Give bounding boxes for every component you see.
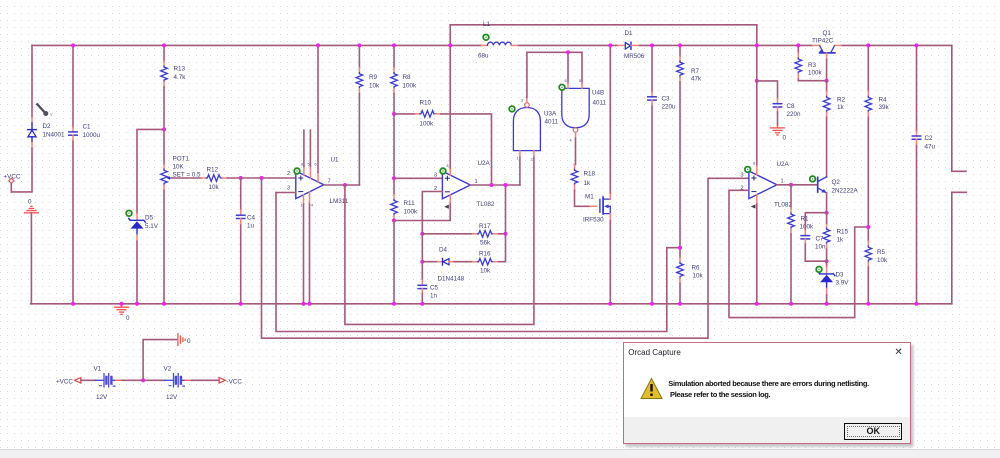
transistor Q2 2N2222A (NPN): [818, 177, 827, 193]
resistor R17: [473, 231, 499, 238]
wire: U1 output to R9 column: [324, 184, 360, 186]
junction ground rail U1 pin4: [308, 302, 312, 306]
wire: U2A-2 pin 4 to ground rail: [756, 204, 758, 304]
wire: D4 to R16: [454, 261, 473, 263]
wire: ground symbol down to ground rail: [30, 213, 32, 304]
svg-text:4011: 4011: [545, 119, 559, 126]
svg-text:10k: 10k: [877, 257, 888, 264]
junction C8 branch: [755, 79, 759, 83]
wire: R4 to divider node: [867, 117, 869, 241]
svg-text:1k: 1k: [837, 104, 845, 111]
junction output/R10: [490, 183, 494, 187]
junction ground rail C5: [420, 302, 424, 306]
capacitor C5: [418, 280, 426, 293]
wire: U2A-2 pin 2 from R4/R5 divider: [729, 190, 868, 317]
junction rail M1 drain: [608, 43, 612, 47]
junction rail U2A V+: [448, 43, 452, 47]
svg-text:10k: 10k: [693, 273, 704, 280]
wire: R9 column: [358, 45, 360, 67]
svg-text:39k: 39k: [879, 104, 890, 111]
svg-text:10K: 10K: [173, 163, 185, 170]
junction ground rail R5: [866, 302, 870, 306]
junction D4 left node: [420, 260, 424, 264]
svg-text:R15: R15: [837, 229, 849, 236]
wire: feedback R12 node across to U2A-2 pin3: [262, 178, 749, 338]
svg-text:4.7k: 4.7k: [174, 74, 187, 81]
junction ground rail D3: [825, 302, 829, 306]
wire: U4B output to R18: [575, 138, 576, 164]
wire: C7 loop from emitter node: [805, 213, 826, 231]
probe at D3: [816, 267, 822, 273]
junction rail R7: [678, 43, 682, 47]
junction ground rail at ground symbol: [120, 302, 124, 306]
wire: +VCC to V1: [81, 379, 96, 381]
resistor R15: [823, 223, 830, 249]
wire: V1 to center junction: [122, 379, 165, 381]
svg-text:D4: D4: [439, 247, 448, 254]
junction U4B pin 6 drop: [566, 50, 570, 54]
svg-text:v: v: [50, 112, 53, 118]
svg-text:8: 8: [301, 163, 303, 167]
svg-text:1: 1: [301, 204, 303, 208]
svg-text:100k: 100k: [800, 224, 815, 231]
pin 4 stub and marker: [756, 195, 758, 204]
wire: D3 to ground rail: [826, 295, 828, 304]
svg-text:TL082: TL082: [774, 202, 792, 209]
wire: C8 branch: [757, 81, 778, 99]
wire: C5 to ground rail: [421, 294, 423, 304]
wire: R8 column node to U2A pin 3: [394, 177, 442, 179]
probe at U4B pin 6: [559, 85, 565, 91]
resistor R10: [415, 111, 441, 118]
svg-text:IRF530: IRF530: [583, 217, 604, 224]
svg-text:R3: R3: [808, 62, 817, 69]
svg-text:12V: 12V: [96, 394, 108, 401]
wire: R17 right to output column: [499, 233, 506, 235]
wire: D4 row left: [422, 261, 437, 263]
svg-text:4: 4: [311, 204, 313, 208]
wire: R5 to ground rail: [867, 267, 869, 304]
wire: C4 column: [240, 178, 242, 304]
svg-text:100k: 100k: [404, 209, 419, 216]
svg-text:4: 4: [570, 139, 572, 143]
svg-text:R8: R8: [403, 74, 412, 81]
svg-text:1: 1: [517, 157, 519, 161]
diode D2: [28, 117, 37, 148]
wire: R8 column: [393, 45, 395, 67]
wire: POT1 to ground rail: [163, 190, 165, 303]
wire: R9 to U1 output: [358, 94, 360, 185]
wire: main rail segment B (L1 to D1): [518, 44, 618, 46]
dialog message: [668, 379, 904, 400]
resistor R18: [571, 164, 578, 190]
svg-text:+VCC: +VCC: [56, 378, 73, 385]
wire: U1 pins 1,4 to ground rail: [304, 204, 310, 304]
wire: node to D3: [826, 249, 828, 267]
svg-text:C7: C7: [816, 235, 825, 242]
junction R15/C7/D3 node: [825, 259, 829, 263]
svg-text:8: 8: [447, 164, 449, 168]
wire: R1 to ground rail: [790, 234, 792, 304]
probe at U2A pin 8: [440, 168, 446, 174]
wire: R6 to ground rail: [679, 283, 681, 303]
junction output/R16R17: [504, 183, 508, 187]
wire: R2 column top: [826, 81, 828, 92]
svg-text:100k: 100k: [808, 70, 823, 77]
junction ground rail R11: [392, 302, 396, 306]
U1 top power/balance pins: [301, 163, 318, 183]
svg-text:R16: R16: [479, 251, 491, 258]
probe at L1: [483, 35, 489, 41]
svg-text:D2: D2: [43, 123, 52, 130]
wire: D2 to +VCC corner: [11, 148, 32, 192]
wire: Q2 emitter to node: [826, 193, 828, 213]
wire: U3A output to U4B inputs: [527, 52, 582, 97]
svg-text:R6: R6: [692, 265, 701, 272]
svg-text:1: 1: [475, 179, 478, 185]
svg-text:1n: 1n: [430, 293, 438, 300]
wire: main rail segment D (Q1 to right column): [841, 44, 952, 46]
op-amp U2A (first TL082): [442, 171, 470, 199]
zener diode D3: [818, 267, 835, 295]
U1 bottom pins 1 and 4: [301, 192, 314, 208]
wire: R3 column: [797, 45, 799, 53]
svg-text:R2: R2: [837, 97, 846, 104]
wire: POT1 wiper to R12: [172, 177, 202, 179]
resistor R11: [391, 195, 398, 221]
ground 0 at C8: [771, 125, 785, 136]
wire: V2 to -VCC port: [192, 379, 219, 381]
dialog close button: [894, 347, 902, 358]
wire: output up to U3A pin 1: [519, 156, 521, 185]
svg-text:3.9V: 3.9V: [836, 280, 850, 287]
wire: R1 column: [790, 185, 792, 208]
wire: aux rail drop to supply column: [756, 25, 758, 166]
wire: R7 column: [679, 45, 681, 56]
svg-text:1: 1: [781, 178, 784, 184]
svg-text:5: 5: [308, 163, 310, 167]
junction rail R4: [866, 43, 870, 47]
pin 4 stub U2A: [449, 195, 451, 204]
wire: ground rail (net 0): [31, 303, 952, 305]
resistor R1: [788, 208, 795, 234]
OK button: [844, 423, 902, 439]
capacitor C3: [648, 92, 656, 105]
capacitor C2: [912, 131, 920, 144]
capacitor C4: [237, 210, 245, 223]
wire: feedback U1 pin3 across to R7/R6 divider tap: [276, 193, 680, 332]
wire: M1 source to ground rail: [609, 221, 611, 304]
wire: right output column with load stubs: [952, 45, 967, 303]
wire: R3 bottom to base node: [798, 79, 826, 81]
junction R4/R5 divider node: [866, 225, 870, 229]
svg-text:2: 2: [287, 171, 290, 177]
junction V1/V2 center: [141, 378, 145, 382]
resistor R5: [865, 241, 872, 267]
svg-text:Q2: Q2: [832, 179, 841, 186]
junction ground rail C1: [71, 302, 75, 306]
svg-text:6: 6: [315, 163, 317, 167]
svg-text:V2: V2: [164, 366, 172, 373]
potentiometer POT1: [161, 164, 172, 190]
svg-text:R17: R17: [479, 223, 491, 230]
svg-text:R11: R11: [404, 200, 416, 207]
junction rail R8: [392, 43, 396, 47]
svg-text:R7: R7: [691, 68, 700, 75]
junction ground rail C3: [650, 302, 654, 306]
NAND gate U4B (4011, output down): [562, 79, 589, 143]
svg-text:-VCC: -VCC: [227, 378, 243, 385]
probe cursor near D2: [37, 104, 53, 118]
zener diode D5: [129, 213, 146, 241]
svg-text:100k: 100k: [420, 121, 435, 128]
wire: main VCC rail segment A: [32, 44, 481, 46]
resistor R7: [677, 56, 684, 82]
wire: R10 left: [394, 113, 415, 115]
svg-text:3: 3: [434, 173, 437, 179]
svg-text:C1: C1: [83, 124, 92, 131]
wire: C8 to ground symbol: [777, 112, 779, 125]
junction rail C1: [71, 43, 75, 47]
svg-text:U2A: U2A: [777, 161, 790, 168]
junction rail R13: [162, 43, 166, 47]
svg-text:D1N4148: D1N4148: [438, 276, 465, 283]
svg-text:U4B: U4B: [592, 90, 604, 97]
wire: R18 to M1 gate: [575, 190, 591, 206]
svg-text:U3A: U3A: [544, 111, 557, 118]
probe at D5: [126, 211, 132, 217]
svg-text:1000u: 1000u: [83, 132, 101, 139]
port +VCC (supply row): [56, 378, 81, 386]
resistor R2: [823, 91, 830, 117]
resistor R4: [865, 91, 872, 117]
wire: R13 to POT1: [163, 87, 165, 164]
svg-text:MR506: MR506: [624, 53, 645, 60]
junction rail R9: [357, 43, 361, 47]
svg-text:1N4001: 1N4001: [43, 132, 66, 139]
svg-text:C2: C2: [925, 135, 934, 142]
voltage source V2: [165, 374, 193, 387]
svg-text:U1: U1: [331, 157, 340, 164]
svg-text:1k: 1k: [584, 180, 592, 187]
capacitor C1: [69, 127, 77, 140]
NAND gate U3A (4011, output up): [513, 97, 540, 161]
svg-text:220u: 220u: [662, 104, 677, 111]
wire: emitter node to R15: [826, 213, 828, 224]
wire: M1 drain to rail: [609, 45, 611, 193]
svg-text:56k: 56k: [480, 240, 491, 247]
svg-text:3: 3: [287, 186, 290, 192]
wire: R16 right up to R17 node and to output: [499, 185, 506, 262]
svg-text:R10: R10: [420, 100, 432, 107]
resistor R6: [677, 257, 684, 283]
resistor R12: [201, 175, 227, 182]
svg-text:0: 0: [28, 199, 32, 206]
wire: R12 to U1 pin 2: [227, 177, 295, 179]
junction ground rail C4: [239, 302, 243, 306]
junction R13/D5 tap: [162, 127, 166, 131]
junction R17 left node: [420, 232, 424, 236]
dialog button strip: [624, 417, 910, 443]
probe at U1 pin 2: [294, 168, 300, 174]
diode D4: [438, 258, 454, 265]
junction R7/R6 divider tap: [678, 246, 682, 250]
MOSFET M1 IRF530: [590, 193, 610, 221]
svg-text:0: 0: [783, 135, 787, 142]
wire: R2 to Q2 collector: [826, 117, 828, 176]
svg-text:2: 2: [531, 158, 533, 162]
svg-text:8: 8: [753, 162, 755, 166]
wire: C2 column: [916, 45, 918, 303]
svg-text:D3: D3: [836, 272, 845, 279]
transistor Q1 TIP42C (PNP series pass): [813, 45, 841, 59]
svg-text:47k: 47k: [691, 75, 702, 82]
svg-text:TL082: TL082: [477, 201, 495, 208]
wire: D5 to ground rail: [136, 241, 138, 303]
dialog title: [628, 348, 680, 357]
junction rail C2: [915, 43, 919, 47]
junction base/R2 node: [825, 79, 829, 83]
svg-text:0: 0: [126, 315, 130, 322]
wire: center junction up to ground: [143, 340, 176, 381]
resistor R3: [795, 53, 802, 79]
wire: C1 column: [72, 45, 74, 303]
probe at Q2 base: [810, 176, 816, 182]
junction ground rail C2: [915, 302, 919, 306]
svg-text:3: 3: [521, 99, 523, 103]
svg-text:Q1: Q1: [823, 30, 832, 37]
dialog: Orcad Capture message box: [623, 342, 911, 444]
voltage source V1: [95, 374, 123, 387]
resistor R16: [473, 258, 499, 265]
junction ground rail R1: [789, 302, 793, 306]
resistor R13: [161, 61, 168, 87]
svg-text:D5: D5: [145, 215, 154, 222]
junction R8/R10 node: [392, 112, 396, 116]
pin 8 stub U2A: [449, 168, 451, 175]
resistor R9: [356, 68, 363, 94]
wire: U2A pin 2 loop: [422, 192, 442, 281]
junction ground rail D5: [135, 302, 139, 306]
junction R17/R16 right node: [504, 232, 508, 236]
svg-text:L1: L1: [483, 21, 491, 28]
svg-text:R4: R4: [879, 97, 888, 104]
wire: R11 to ground rail: [393, 221, 395, 304]
op-amp U2A (second TL082): [749, 171, 777, 199]
svg-text:10k: 10k: [480, 267, 491, 274]
svg-text:R18: R18: [584, 171, 596, 178]
svg-text:5: 5: [579, 79, 581, 83]
svg-text:10k: 10k: [209, 184, 220, 191]
diode D1 MR506: [618, 42, 639, 49]
junction R11 bottom / U2A pin4 return: [392, 219, 396, 223]
svg-text:10n: 10n: [815, 243, 826, 250]
ground 0 (rotated, supply row): [178, 334, 191, 346]
svg-text:U2A: U2A: [478, 160, 491, 167]
svg-text:M1: M1: [585, 194, 594, 201]
wire: R4 column: [867, 45, 869, 91]
junction C4 tap: [239, 176, 243, 180]
svg-text:1k: 1k: [837, 237, 845, 244]
svg-text:47u: 47u: [925, 144, 936, 151]
junction ground rail U2A-2 pin4: [755, 302, 759, 306]
svg-text:R13: R13: [174, 66, 186, 73]
wire: Q1 base down to R3/R2 node: [826, 59, 828, 80]
junction U1 output feedback tap: [343, 183, 347, 187]
junction feedback tap at R12 node: [260, 176, 264, 180]
ground 0 (below ground rail, bottom left): [115, 304, 129, 315]
capacitor C8: [773, 99, 781, 112]
wire: feedback U1 output down and across to U3A input B: [345, 156, 534, 324]
junction rail supply column: [755, 43, 759, 47]
svg-text:0: 0: [187, 338, 191, 345]
svg-text:C8: C8: [787, 103, 796, 110]
wire: C3 column: [651, 45, 653, 303]
svg-text:10k: 10k: [369, 83, 380, 90]
wire: R8 to R11 column: [393, 94, 395, 195]
wire: R7 down to divider tap: [679, 82, 681, 257]
svg-text:12V: 12V: [166, 394, 178, 401]
svg-text:C4: C4: [247, 215, 256, 222]
ground 0 (top left, above ground rail): [25, 199, 39, 213]
warning icon: [640, 377, 664, 401]
svg-text:TIP42C: TIP42C: [812, 38, 834, 45]
svg-text:3: 3: [741, 173, 744, 179]
svg-text:6: 6: [565, 79, 567, 83]
svg-text:R12: R12: [207, 167, 219, 174]
junction R1 tap on output: [789, 183, 793, 187]
svg-text:5.1V: 5.1V: [145, 223, 159, 230]
junction ground rail U1 pin1: [302, 302, 306, 306]
op-amp U1 LM311: [296, 171, 324, 199]
resistor R8: [391, 68, 398, 94]
wire: R17 row: [422, 233, 472, 235]
svg-text:7: 7: [328, 179, 331, 185]
svg-text:220n: 220n: [787, 111, 802, 118]
svg-text:4011: 4011: [593, 100, 607, 107]
junction U2A pin3 node on R8 column: [392, 176, 396, 180]
port -VCC: [219, 378, 242, 386]
junction ground rail POT1: [162, 302, 166, 306]
wire: U1 pin 3 input: [276, 192, 296, 194]
application status bar: [0, 449, 1000, 458]
svg-text:D1: D1: [625, 30, 634, 37]
svg-text:C3: C3: [662, 96, 671, 103]
junction Q2 emitter node: [825, 211, 829, 215]
junction ground rail M1: [608, 302, 612, 306]
svg-text:68u: 68u: [478, 53, 489, 60]
svg-text:100k: 100k: [403, 83, 418, 90]
wire: left column from rail to D2: [31, 45, 33, 117]
wire: auxiliary top VCC rail: [450, 24, 757, 26]
wire: rail to U2A pin 8 and aux rail corner: [449, 25, 451, 168]
svg-text:R5: R5: [877, 249, 886, 256]
wire: U1 V+ pin to rail: [317, 45, 319, 172]
svg-text:LM311: LM311: [330, 198, 349, 205]
wire: main rail segment C (D1 to Q1): [639, 44, 813, 46]
svg-text:2N2222A: 2N2222A: [832, 188, 859, 195]
svg-text:V1: V1: [94, 366, 102, 373]
wire: U2A-2 output to Q2 base: [777, 184, 818, 186]
junction rail R3: [796, 43, 800, 47]
junction rail U1 V+: [316, 43, 320, 47]
pin 4 marker U2A: [444, 205, 449, 209]
svg-text:R9: R9: [369, 74, 378, 81]
svg-text:POT1: POT1: [173, 155, 190, 162]
capacitor C7: [801, 231, 809, 244]
inductor L1: [481, 42, 517, 45]
wire: C7 bottom to R15 bottom node: [805, 244, 826, 261]
